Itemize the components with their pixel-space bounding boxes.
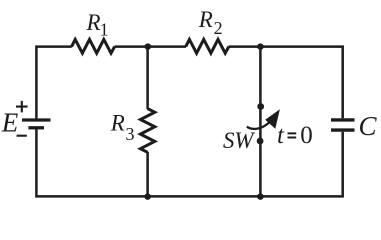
svg-text:C: C: [359, 111, 378, 141]
resistor R1: [72, 39, 115, 53]
svg-text:t: t: [277, 122, 285, 149]
node: junction dot top rail / switch branch: [257, 43, 264, 50]
svg-text:SW: SW: [223, 128, 255, 153]
resistor R3: [140, 109, 154, 153]
svg-text:R: R: [110, 111, 125, 136]
wire: switch branch (top rail through SW to bottom rail): [259, 45, 262, 197]
switch SW arrowhead: [265, 109, 280, 129]
wire: capacitor bottom to bottom-right corner, bottom rail, and up to battery bottom: [36, 129, 342, 196]
battery plus sign: [16, 101, 28, 113]
battery E bottom plate (negative, short): [28, 126, 44, 129]
svg-text:R: R: [86, 10, 101, 35]
battery minus sign: [17, 135, 27, 137]
svg-text:0: 0: [300, 122, 313, 149]
switch SW upper terminal dot: [257, 103, 264, 110]
svg-text:R: R: [198, 7, 213, 32]
battery E top plate (positive, long): [22, 118, 51, 121]
node: junction dot bottom rail / R3: [144, 193, 151, 200]
node: junction dot bottom rail / switch branch: [257, 193, 264, 200]
capacitor C bottom plate: [331, 128, 355, 131]
wire: top rail from R2 to top-right corner down to capacitor: [229, 47, 343, 119]
svg-text:1: 1: [100, 20, 109, 40]
node: junction dot top rail / R3: [145, 43, 152, 50]
svg-text:E: E: [1, 108, 19, 138]
svg-text:3: 3: [126, 124, 135, 144]
capacitor C top plate: [331, 118, 355, 121]
switch SW lower terminal dot: [257, 138, 264, 145]
wire: top rail between R1 and R2: [114, 45, 186, 48]
svg-text:2: 2: [214, 18, 223, 38]
wire: R3 branch upper: [146, 45, 149, 109]
wire: R3 branch lower: [146, 152, 149, 198]
switch SW closing motion arc: [247, 122, 269, 129]
resistor R2: [186, 39, 229, 53]
wire: battery top to top-left corner and top rail to R1: [36, 47, 71, 119]
